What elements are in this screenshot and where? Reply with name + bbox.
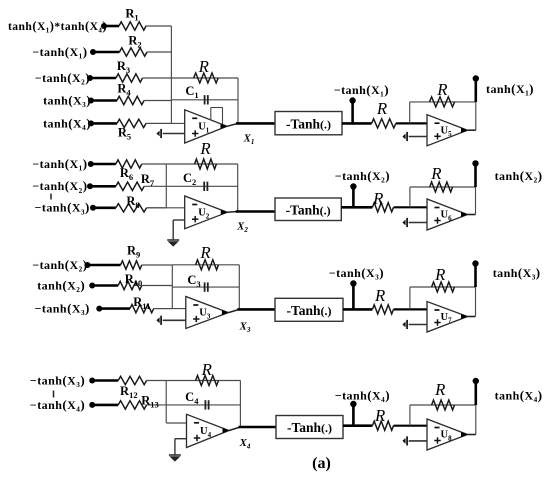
svg-text:R: R bbox=[376, 99, 387, 118]
svg-text:tanh(X1)*tanh(X4): tanh(X1)*tanh(X4) bbox=[8, 19, 107, 35]
svg-text:R: R bbox=[430, 164, 441, 183]
svg-text:R: R bbox=[434, 380, 445, 399]
svg-text:R: R bbox=[201, 360, 212, 379]
svg-text:R: R bbox=[372, 189, 383, 208]
svg-text:-Tanh(.): -Tanh(.) bbox=[286, 303, 331, 318]
svg-text:R: R bbox=[198, 57, 209, 76]
svg-text:-Tanh(.): -Tanh(.) bbox=[286, 116, 331, 131]
svg-text:R: R bbox=[374, 406, 385, 425]
svg-text:R: R bbox=[199, 139, 210, 158]
svg-text:-Tanh(.): -Tanh(.) bbox=[287, 420, 332, 435]
svg-text:R: R bbox=[374, 286, 385, 305]
svg-text:R: R bbox=[434, 265, 445, 284]
svg-text:(a): (a) bbox=[312, 455, 331, 472]
svg-text:-Tanh(.): -Tanh(.) bbox=[286, 202, 331, 217]
svg-text:R: R bbox=[199, 243, 210, 262]
svg-text:R: R bbox=[436, 80, 447, 99]
